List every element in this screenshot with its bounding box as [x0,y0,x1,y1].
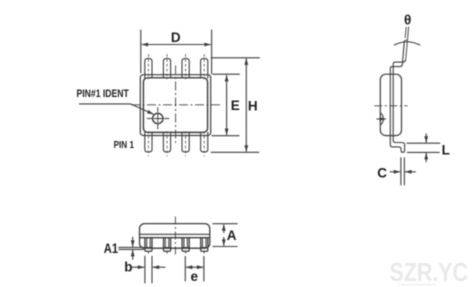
svg-text:D: D [171,30,181,45]
pin 3 bottom centerline [185,131,187,156]
dimension C left arrow [390,171,400,173]
svg-text:A: A [227,228,237,243]
pin#1 ident circle [153,113,163,123]
pin 4 top centerline [203,54,205,79]
dimension A1 extension line lower [118,248,143,250]
dimension E dimension line with arrows [226,75,228,95]
svg-text:SZR.YC: SZR.YC [390,257,469,287]
dimension E extension line bottom [212,135,240,137]
top view horizontal centerline [131,104,221,106]
pin 3 top [182,58,189,78]
side view centerline [374,105,407,107]
dimension H extension line bottom [211,151,259,153]
theta angle arc [394,42,420,46]
dimension e extension line left [184,256,186,281]
side view body outline [380,74,401,135]
dimension L extension line bottom [407,151,440,153]
dimension C right arrow [405,171,416,173]
dimension A1 extension line upper [118,246,143,248]
dimension b left arrow [132,266,144,268]
dimension e dimension line with arrows [186,266,195,268]
side view top lead inner contour [393,60,406,136]
dimension C extension line left [400,157,402,185]
dimension L extension line top [407,142,441,144]
front view vertical centerline [174,217,176,256]
pin 3 top centerline [185,54,187,79]
dimension E extension line top [213,73,240,75]
svg-text:A1: A1 [104,241,119,256]
dimension A extension line bottom [212,246,237,248]
svg-text:E: E [231,98,240,113]
svg-text:b: b [124,260,132,275]
dimension A dimension line with arrows [223,224,225,233]
svg-text:θ: θ [404,13,411,28]
dimension D dimension line with arrows [175,44,211,46]
svg-text:PIN#1 IDENT: PIN#1 IDENT [77,88,130,100]
pin 2 bottom [163,132,170,152]
dimension b right arrow [153,266,166,268]
dimension A1 upper arrow [132,237,134,247]
pin 1 top (top row, leftmost) [145,58,152,78]
front view parting line lower [140,237,210,239]
side view bottom lead inner contour [393,136,404,145]
top view body inner outline [143,78,207,133]
pin#1 ident circle vertical crosshair [157,107,159,129]
dimension C extension line right [403,157,405,185]
dimension e extension line right [203,256,205,281]
dimension H extension line top [211,57,260,59]
pin 2 top centerline [166,54,168,79]
dimension L lower arrow [425,153,427,162]
gauge plane arrow [377,118,386,120]
dimension D extension line left [140,30,142,74]
dimension b extension line left [144,256,146,283]
dimension D extension line right [211,30,213,75]
side view bottom lead outer contour [390,136,404,153]
pin 1 bottom centerline [147,131,149,156]
pin 3 bottom [182,132,189,152]
pin 4 bottom centerline [203,131,205,156]
svg-text:e: e [191,269,199,284]
front lead 4 [201,238,208,255]
dimension A extension line top [212,223,237,225]
front view parting line upper [140,233,210,235]
svg-text:H: H [248,98,258,113]
svg-text:PIN 1: PIN 1 [114,140,135,151]
pin#1 ident circle horizontal crosshair [147,118,170,120]
pin#1 ident leader line [79,104,154,114]
svg-text:C: C [377,165,387,180]
top view body outer outline [140,75,210,136]
dimension L upper arrow [425,133,427,142]
dimension H dimension line with arrows [245,59,247,106]
dimension b extension line right [151,256,153,283]
watermark underline [399,284,436,286]
side view top lead foot tip [404,39,407,42]
front view body outline [140,224,210,249]
pin 4 bottom [201,132,208,152]
pin 4 top [201,58,208,78]
dimension A1 lower arrow [132,250,134,260]
pin 2 top [163,58,170,78]
gauge plane arc symbol on body edge [381,113,384,125]
pin 1 bottom (bottom row, leftmost) [145,132,152,152]
pin 1 top centerline [147,54,149,79]
pin 2 bottom centerline [166,131,168,156]
front lead 3 [182,238,189,255]
svg-text:L: L [442,142,450,157]
side view top lead outer contour [390,41,404,136]
theta angle foot extension line left [405,27,406,38]
theta angle foot extension line right [406,27,409,60]
front lead 2 [164,238,171,255]
front lead 1 [145,238,152,255]
top view vertical centerline [175,66,177,145]
